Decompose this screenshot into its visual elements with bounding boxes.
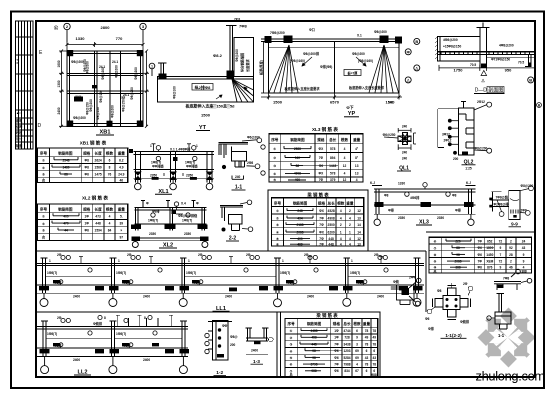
svg-text:③: ③	[273, 164, 276, 168]
svg-text:2Φ: 2Φ	[304, 253, 309, 257]
svg-text:总长: 总长	[328, 200, 336, 205]
svg-text:3438: 3438	[343, 342, 350, 346]
YP right fan hatch	[369, 45, 399, 93]
svg-text:13: 13	[357, 242, 361, 246]
svg-text:2500: 2500	[328, 223, 335, 227]
svg-text:Φ8: Φ8	[85, 166, 90, 170]
svg-text:6: 6	[356, 329, 358, 333]
svg-text:46: 46	[120, 178, 124, 182]
svg-text:4: 4	[340, 216, 342, 220]
svg-text:7: 7	[500, 253, 502, 257]
XL2 stirrup blocks	[131, 210, 209, 242]
svg-text:2Φ: 2Φ	[57, 316, 62, 320]
svg-text:③: ③	[290, 343, 293, 347]
svg-text:1: 1	[351, 259, 353, 263]
svg-text:序号: 序号	[274, 200, 282, 205]
svg-text:1800: 1800	[486, 246, 493, 250]
svg-text:24.1: 24.1	[112, 60, 118, 64]
detail 1-1(2-2) cross section bottom right	[427, 283, 473, 320]
svg-text:Φ8@200排: Φ8@200排	[303, 51, 320, 56]
D-D middle post	[479, 28, 481, 68]
svg-text:43: 43	[373, 356, 377, 360]
svg-text:1Φ: 1Φ	[85, 214, 90, 218]
svg-text:Φ8: Φ8	[452, 194, 457, 198]
svg-text:470: 470	[63, 222, 69, 226]
svg-text:4744: 4744	[343, 329, 350, 333]
svg-text:448: 448	[328, 237, 334, 241]
svg-text:70.5: 70.5	[470, 63, 476, 67]
svg-text:2Φ: 2Φ	[57, 253, 62, 257]
9-9 leader tags	[497, 186, 533, 217]
svg-text:X.4: X.4	[181, 202, 186, 206]
svg-text:⑤: ⑤	[273, 178, 276, 182]
svg-text:钢筋简图: 钢筋简图	[293, 200, 308, 205]
1-1 bottom bracket	[232, 176, 244, 180]
svg-text:⑤: ⑤	[290, 356, 293, 360]
svg-text:4: 4	[349, 242, 351, 246]
svg-text:制图: 制图	[16, 143, 22, 148]
svg-text:13: 13	[357, 216, 361, 220]
svg-text:总长: 总长	[329, 137, 337, 142]
svg-text:⑦: ⑦	[434, 246, 437, 250]
svg-text:448: 448	[95, 222, 101, 226]
LL1 circled tags above	[59, 255, 388, 283]
svg-text:ΦΦ排烧: ΦΦ排烧	[152, 164, 164, 169]
svg-text:4Φ8@200: 4Φ8@200	[443, 38, 458, 42]
XL2 annotations	[151, 202, 190, 217]
label XB1	[96, 130, 114, 136]
svg-text:(Φ8@160): (Φ8@160)	[290, 59, 305, 63]
svg-text:578: 578	[330, 172, 336, 176]
detail 1-2 beside LL2	[208, 321, 232, 361]
plan XB1 slab plan	[67, 51, 143, 126]
detail 9-9	[490, 191, 520, 220]
svg-text:B: B	[415, 39, 418, 44]
partition box around middle rebar table	[268, 190, 368, 251]
label D-D section	[474, 87, 505, 94]
table T5 right middle schedule	[429, 237, 532, 273]
svg-text:24.1: 24.1	[123, 93, 129, 97]
D-D left beam block	[438, 36, 480, 61]
detail E1 stepped section bottom right	[391, 278, 421, 306]
svg-text:纵向钢筋锚固: 纵向钢筋锚固	[240, 53, 245, 72]
svg-text:Φ排: Φ排	[428, 326, 435, 331]
svg-text:2400: 2400	[73, 295, 80, 299]
svg-text:Φ排: Φ排	[455, 208, 462, 213]
plan XB1 grid bubbles top	[64, 23, 146, 42]
svg-text:200: 200	[453, 157, 459, 161]
svg-text:240: 240	[235, 175, 241, 179]
svg-text:1594: 1594	[95, 228, 102, 232]
svg-text:84: 84	[108, 228, 112, 232]
svg-text:板底筋伸入支座长度要求: 板底筋伸入支座长度要求	[349, 85, 385, 90]
svg-text:1600: 1600	[57, 60, 61, 67]
svg-text:X.1 1.4Φ8Φ排: X.1 1.4Φ8Φ排	[170, 147, 191, 152]
svg-text:Φ排: Φ排	[388, 208, 395, 213]
svg-text:1: 1	[196, 144, 198, 148]
svg-text:板底筋伸入支座长度要求: 板底筋伸入支座长度要求	[284, 86, 320, 91]
plan XB1 column blocks	[67, 50, 143, 127]
XL3 annotations	[405, 183, 451, 197]
svg-text:1480: 1480	[62, 166, 69, 170]
svg-text:1Φ8(T): 1Φ8(T)	[47, 332, 57, 336]
svg-text:Φ8@150双: Φ8@150双	[121, 95, 126, 112]
svg-text:XL3 钢 筋 表: XL3 钢 筋 表	[312, 126, 338, 133]
svg-text:Φ8@200: Φ8@200	[73, 116, 86, 120]
svg-text:根数: 根数	[337, 200, 345, 205]
svg-text:1: 1	[349, 230, 351, 234]
svg-text:1450: 1450	[486, 253, 493, 257]
svg-text:3Φ12: 3Φ12	[442, 133, 450, 137]
svg-text:1500: 1500	[201, 113, 211, 118]
svg-text:240: 240	[402, 157, 408, 161]
svg-text:240: 240	[402, 151, 408, 155]
svg-text:序号: 序号	[271, 137, 279, 142]
section YT	[158, 26, 254, 103]
svg-text:76: 76	[108, 172, 112, 176]
YT corner fan hatch	[232, 79, 254, 102]
svg-text:97: 97	[120, 236, 124, 240]
svg-text:规格: 规格	[83, 151, 91, 156]
svg-text:Φ6: Φ6	[85, 172, 90, 176]
svg-text:8: 8	[104, 316, 106, 320]
svg-text:9: 9	[500, 246, 502, 250]
svg-text:Φ6: Φ6	[334, 349, 339, 353]
svg-text:1: 1	[151, 65, 153, 69]
svg-text:重量: 重量	[363, 321, 371, 326]
beam elevation XL2	[135, 201, 207, 241]
svg-text:根数: 根数	[106, 207, 114, 212]
svg-text:240: 240	[402, 125, 408, 129]
partition vertical right of LL1	[425, 251, 427, 312]
svg-text:7Φ: 7Φ	[319, 216, 324, 220]
svg-text:78: 78	[365, 329, 369, 333]
partition line under XL band	[36, 190, 535, 377]
svg-text:Φ6: Φ6	[85, 228, 90, 232]
YT leader arrow	[216, 87, 250, 99]
svg-text:Φ8@150: Φ8@150	[96, 107, 100, 120]
svg-text:2Φ: 2Φ	[463, 282, 468, 286]
D-D main slab line	[438, 51, 535, 53]
svg-text:2400: 2400	[143, 358, 150, 362]
svg-text:12: 12	[343, 178, 347, 182]
svg-text:+15Φ8@150: +15Φ8@150	[443, 45, 461, 49]
svg-text:4.9: 4.9	[119, 166, 124, 170]
partition line above right mid table	[426, 231, 535, 233]
svg-text:4908: 4908	[328, 216, 335, 220]
svg-text:②: ②	[42, 166, 45, 170]
svg-text:规格: 规格	[83, 207, 91, 212]
svg-text:②: ②	[42, 222, 45, 226]
svg-text:①: ①	[42, 159, 45, 163]
svg-text:规格: 规格	[333, 321, 341, 326]
detail E4 behind logo	[495, 294, 511, 330]
svg-text:473: 473	[95, 214, 101, 218]
svg-text:K.J: K.J	[370, 181, 375, 185]
YP leader arrows	[302, 57, 366, 66]
QL2 leader lines	[452, 102, 492, 153]
D-D hatch ticks on left edge	[435, 37, 438, 60]
svg-text:2Φ8: 2Φ8	[521, 208, 527, 212]
svg-text:7Φ8: 7Φ8	[503, 277, 509, 281]
svg-text:2400: 2400	[251, 349, 258, 353]
svg-text:Φ: Φ	[196, 202, 199, 206]
XL2 grid bubbles	[132, 242, 208, 248]
D-D bottom tick black	[481, 64, 487, 68]
svg-text:1750: 1750	[454, 68, 464, 73]
svg-text:Φ8.2: Φ8.2	[213, 53, 223, 58]
label 2-2	[226, 236, 239, 242]
svg-text:4: 4	[349, 216, 351, 220]
svg-text:12: 12	[357, 209, 361, 213]
plan XB1 right dimension ticks	[143, 50, 149, 128]
svg-text:78: 78	[373, 363, 377, 367]
LL2 columns	[42, 321, 44, 357]
section 2-2 (for XL2)	[220, 205, 243, 230]
svg-text:Φ8: Φ8	[437, 289, 442, 293]
svg-text:67: 67	[355, 369, 359, 373]
svg-text:1: 1	[340, 230, 342, 234]
svg-text:2Φ: 2Φ	[127, 253, 132, 257]
YT slab body rectangle	[158, 77, 254, 103]
svg-text:Φ6: Φ6	[478, 265, 483, 269]
svg-text:Φ8@: Φ8@	[230, 335, 238, 339]
table T2 XL2 rebar schedule	[38, 204, 128, 240]
svg-text:1475: 1475	[95, 172, 102, 176]
D-D right beam underline	[487, 57, 535, 59]
svg-text:Φ8@200: Φ8@200	[89, 99, 93, 112]
svg-text:1: 1	[150, 144, 152, 148]
svg-text:1330: 1330	[398, 182, 405, 186]
svg-text:Φ8@200: Φ8@200	[130, 87, 134, 100]
svg-text:ΦT2Φ8@150: ΦT2Φ8@150	[491, 58, 510, 62]
svg-text:Φ烧排: Φ烧排	[93, 321, 103, 326]
svg-text:4: 4	[344, 172, 346, 176]
svg-text:1Φ8(T): 1Φ8(T)	[182, 219, 192, 223]
svg-text:578: 578	[330, 147, 336, 151]
svg-text:Φ8@200: Φ8@200	[115, 65, 119, 78]
svg-text:7Φ: 7Φ	[319, 242, 324, 246]
svg-text:5.: 5.	[120, 214, 123, 218]
svg-text:板=7厚: 板=7厚	[347, 70, 358, 75]
svg-text:重量: 重量	[118, 151, 126, 156]
partition line under LL1 band	[36, 311, 380, 313]
label 1-2	[214, 370, 227, 376]
svg-text:24: 24	[522, 239, 526, 243]
detail 1-3 beside LL2	[246, 328, 274, 354]
svg-text:Φ8排: Φ8排	[193, 280, 201, 285]
svg-text:6: 6	[373, 349, 375, 353]
YT boxed note	[192, 84, 213, 91]
svg-text:序号: 序号	[288, 321, 296, 326]
YP boxed note	[344, 70, 361, 76]
svg-text:根数: 根数	[353, 321, 361, 326]
svg-text:43: 43	[522, 246, 526, 250]
svg-text:9: 9	[523, 253, 525, 257]
svg-text:Φ8@200: Φ8@200	[71, 60, 84, 64]
svg-text:4: 4	[109, 214, 111, 218]
svg-text:6: 6	[366, 349, 368, 353]
svg-text:1: 1	[118, 259, 120, 263]
svg-text:7Φ: 7Φ	[319, 178, 324, 182]
svg-text:Φ8: Φ8	[85, 158, 90, 162]
svg-text:78: 78	[365, 363, 369, 367]
svg-text:2Φ: 2Φ	[374, 253, 379, 257]
svg-text:834: 834	[344, 369, 350, 373]
svg-text:72: 72	[499, 260, 503, 264]
svg-text:结构: 结构	[16, 124, 23, 129]
svg-text:1Φ: 1Φ	[334, 329, 339, 333]
svg-text:2400: 2400	[143, 295, 150, 299]
D-D dimension line	[439, 65, 535, 71]
label LL2	[74, 370, 91, 376]
svg-text:2Φ12: 2Φ12	[444, 139, 452, 143]
svg-text:13: 13	[355, 172, 359, 176]
svg-text:D—D 剖面图: D—D 剖面图	[475, 87, 504, 94]
label QL2	[462, 159, 476, 170]
svg-text:Φ排(Φ8): Φ排(Φ8)	[320, 64, 332, 69]
svg-text:4: 4	[344, 147, 346, 151]
left strip tiny marks	[15, 59, 23, 148]
svg-text:1: 1	[188, 259, 190, 263]
LL2 circled tags	[59, 315, 157, 346]
svg-text:XB1 钢 筋 表: XB1 钢 筋 表	[80, 140, 107, 147]
svg-text:2Φ: 2Φ	[198, 253, 203, 257]
svg-text:876: 876	[487, 265, 493, 269]
svg-text:9: 9	[523, 260, 525, 264]
svg-text:Φ8排: Φ8排	[123, 343, 131, 348]
svg-text:2350: 2350	[398, 216, 405, 220]
svg-text:988: 988	[371, 373, 377, 377]
svg-text:设计: 设计	[16, 136, 23, 141]
svg-text:B: B	[529, 78, 532, 83]
svg-text:9-9: 9-9	[511, 221, 518, 226]
svg-text:Φ6: Φ6	[334, 369, 339, 373]
LL1 stirrup blocks	[39, 280, 423, 291]
table T4 beam rebar schedule middle	[272, 198, 364, 246]
plan XB1 rebar annotations (rotated)	[71, 59, 138, 120]
partition box around bottom rebar table	[277, 312, 380, 377]
svg-text:2: 2	[510, 239, 512, 243]
svg-text:①: ①	[42, 215, 45, 219]
svg-text:2548: 2548	[62, 158, 69, 162]
svg-text:4Φ8排: 4Φ8排	[410, 195, 420, 200]
svg-text:2400: 2400	[57, 107, 61, 114]
QL2 rebar dots	[448, 119, 468, 155]
label 9-9	[509, 221, 522, 227]
svg-text:Φ烧: Φ烧	[393, 279, 400, 284]
svg-text:钢筋简图: 钢筋简图	[307, 321, 322, 326]
label 1-3	[251, 359, 264, 365]
svg-text:728: 728	[344, 336, 350, 340]
svg-text:652: 652	[487, 239, 493, 243]
detail E3 top lintel bottom right	[494, 269, 532, 290]
YT support blocks	[159, 71, 235, 80]
svg-text:28: 28	[509, 253, 513, 257]
svg-text:Φ6: Φ6	[425, 317, 430, 321]
svg-text:X.1: X.1	[357, 34, 362, 38]
svg-text:Φ8@200排烧: Φ8@200排烧	[178, 213, 198, 218]
svg-text:▲□: ▲□	[16, 111, 21, 115]
svg-text:140: 140	[388, 101, 394, 105]
YT left post	[160, 63, 162, 77]
svg-text:Φ8@200: Φ8@200	[134, 67, 138, 80]
svg-text:Φ8@200: Φ8@200	[111, 105, 115, 118]
svg-text:78: 78	[365, 342, 369, 346]
D-D right end hook	[528, 54, 530, 66]
svg-text:Φ8排: Φ8排	[152, 209, 160, 214]
svg-text:4: 4	[356, 178, 358, 182]
YP inner texts	[290, 51, 373, 69]
svg-text:2350: 2350	[149, 232, 156, 236]
section D-D top right	[438, 23, 535, 68]
svg-text:2Φ8: 2Φ8	[247, 161, 253, 165]
svg-text:2400: 2400	[377, 295, 384, 299]
svg-text:7Φ8: 7Φ8	[239, 24, 248, 29]
svg-text:1Φ: 1Φ	[85, 222, 90, 226]
LL2 tall risers	[117, 315, 119, 326]
svg-text:2: 2	[349, 209, 351, 213]
XL3 grid bubbles	[374, 214, 474, 225]
svg-text:1-1(2-2): 1-1(2-2)	[445, 333, 462, 338]
svg-text:Φ下: Φ下	[346, 104, 353, 110]
svg-text:2624: 2624	[95, 158, 102, 162]
svg-text:Φ8排: Φ8排	[54, 343, 62, 348]
label YT	[196, 125, 210, 131]
LL2 mid lines	[46, 337, 112, 339]
svg-text:2: 2	[340, 223, 342, 227]
svg-text:6200: 6200	[328, 230, 335, 234]
XL1 column bowtie marks	[129, 149, 214, 180]
QL1 dimensions	[384, 128, 416, 150]
svg-text:根数: 根数	[106, 151, 114, 156]
svg-text:1Φ8(T): 1Φ8(T)	[47, 271, 57, 275]
svg-text:448: 448	[328, 242, 334, 246]
D-D stirrup ticks along beam	[441, 52, 530, 55]
section QL1	[398, 133, 411, 145]
svg-text:72: 72	[499, 239, 503, 243]
LL1 tiny annotations	[47, 253, 384, 299]
svg-text:Φ2Φ8@排: Φ2Φ8@排	[494, 201, 510, 206]
svg-text:1448: 1448	[329, 164, 336, 168]
label QL1	[397, 166, 411, 172]
label XL3	[416, 220, 432, 226]
beam elevation XL1	[134, 152, 215, 183]
D-D texts	[443, 38, 524, 67]
svg-text:①: ①	[273, 147, 276, 151]
svg-text:板厚(厚度): 板厚(厚度)	[259, 60, 264, 75]
svg-text:14: 14	[357, 223, 361, 227]
svg-text:重量: 重量	[353, 137, 361, 142]
svg-text:长度: 长度	[95, 151, 103, 156]
section YP	[261, 39, 402, 93]
label LL1	[213, 306, 230, 312]
svg-text:2400: 2400	[73, 358, 80, 362]
svg-text:78: 78	[373, 342, 377, 346]
YT right tall post	[229, 26, 231, 77]
svg-text:7P.8: 7P.8	[234, 18, 240, 22]
svg-text:92: 92	[509, 246, 513, 250]
svg-text:规格: 规格	[317, 137, 325, 142]
svg-text:12: 12	[343, 164, 347, 168]
table T3 XL3 rebar schedule	[269, 134, 363, 182]
svg-text:④: ④	[276, 230, 279, 234]
svg-text:200: 200	[230, 343, 236, 347]
svg-text:②: ②	[276, 216, 279, 220]
svg-text:YP: YP	[348, 111, 356, 117]
svg-text:Φ6: Φ6	[478, 253, 483, 257]
svg-text:6.2: 6.2	[119, 158, 124, 162]
